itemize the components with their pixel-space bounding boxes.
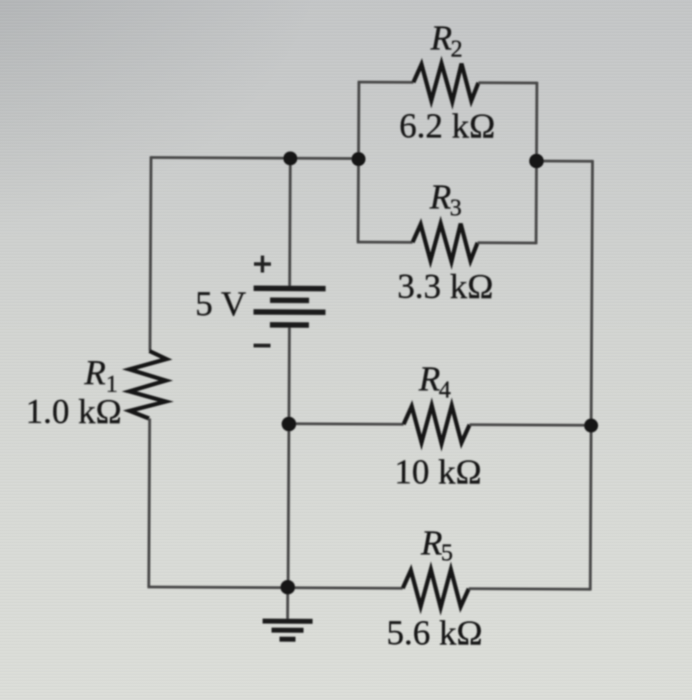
battery plus sign <box>254 256 271 273</box>
svg-text:R: R <box>430 18 453 57</box>
ground bar 3 <box>279 637 295 642</box>
ground stem <box>286 588 289 620</box>
node dot: R2/R3 left <box>351 152 365 166</box>
wire: right vertical lower (R4 node to bottom corner) <box>589 425 593 590</box>
battery cell plate short <box>270 297 309 303</box>
svg-text:6.2 kΩ: 6.2 kΩ <box>399 106 495 146</box>
wire: link node C to right rail <box>536 160 592 163</box>
label R2 <box>430 18 463 62</box>
wire: left vertical upper segment <box>150 156 151 351</box>
wire: R2 branch left vertical <box>357 82 360 158</box>
wire: battery branch lower <box>288 327 289 588</box>
node dot: R4 right <box>584 419 598 433</box>
wire: R4 left horizontal <box>289 422 404 425</box>
label R4 <box>418 359 451 403</box>
resistor R5 zigzag <box>403 569 469 607</box>
ground bar 1 <box>263 619 313 624</box>
resistor R2 zigzag <box>413 63 478 101</box>
battery cell plate long lower <box>253 309 325 315</box>
resistor R3 zigzag <box>412 223 477 261</box>
svg-text:5.6 kΩ: 5.6 kΩ <box>386 613 482 653</box>
label R1 <box>83 353 118 398</box>
svg-text:4: 4 <box>439 377 451 403</box>
svg-text:R: R <box>420 523 443 562</box>
label R3 <box>429 177 462 221</box>
svg-text:3.3 kΩ: 3.3 kΩ <box>397 267 493 307</box>
wire: top horizontal from left corner to node B <box>151 157 358 158</box>
wire: R2 top right horizontal <box>478 81 536 84</box>
node dot: ground <box>280 580 295 595</box>
node dot: battery top <box>283 151 297 165</box>
label R5 <box>420 523 453 566</box>
wire: R3 branch left vertical <box>357 159 360 242</box>
battery cell plate short bottom <box>270 322 309 328</box>
wire: R3 right vertical up to node C <box>535 161 538 244</box>
node dot: battery/R4 <box>282 417 297 432</box>
wire: R4 right horizontal <box>470 423 591 426</box>
wire: bottom horizontal right of R5 <box>469 587 590 590</box>
resistor R1 zigzag <box>129 351 166 419</box>
wire: R2 top left horizontal <box>358 81 414 84</box>
svg-text:R: R <box>418 359 441 398</box>
wire: R2 right vertical down to node C <box>535 82 538 161</box>
svg-text:R: R <box>83 353 106 392</box>
svg-text:2: 2 <box>451 37 463 63</box>
battery cell plate long top <box>254 285 326 291</box>
wire: R3 bottom left horizontal <box>357 241 413 244</box>
resistor R4 zigzag <box>404 405 470 443</box>
svg-text:10 kΩ: 10 kΩ <box>394 452 481 491</box>
ground bar 2 <box>272 628 304 633</box>
svg-text:1.0 kΩ: 1.0 kΩ <box>26 392 122 432</box>
svg-text:R: R <box>429 177 452 216</box>
wire: right rail upper <box>591 160 592 425</box>
svg-text:5 V: 5 V <box>195 284 246 323</box>
svg-text:5: 5 <box>441 541 453 567</box>
wire: bottom horizontal left of R5 <box>147 587 402 588</box>
svg-text:3: 3 <box>450 196 462 222</box>
wire: R3 bottom right horizontal <box>478 241 536 244</box>
battery minus sign <box>254 344 271 348</box>
wire: left vertical lower segment <box>147 418 151 586</box>
wire: battery branch upper <box>288 158 291 286</box>
node dot: R2/R3 right <box>529 154 544 169</box>
